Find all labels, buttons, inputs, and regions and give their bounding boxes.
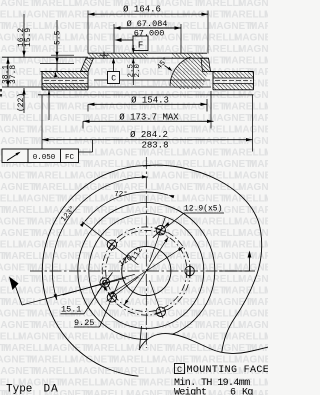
svg-text:Weight: Weight [174,387,206,395]
svg-text:MARELLI: MARELLI [59,10,104,21]
svg-text:MAGNETI: MAGNETI [234,125,268,136]
svg-text:MAGNETI: MAGNETI [182,102,228,113]
svg-text:MARELLI: MARELLI [197,136,242,147]
svg-text:MARELLI: MARELLI [223,194,268,205]
datum C leader with up arrow [113,62,115,72]
svg-text:MARELLI: MARELLI [249,159,268,170]
dimension 67.084 - extension lines [113,24,115,54]
svg-text:MARELLI: MARELLI [197,90,242,101]
svg-text:MARELLI: MARELLI [3,205,48,216]
extra locating hole with cross [100,278,110,288]
svg-text:MARELLI: MARELLI [33,0,78,9]
svg-text:MARELLI: MARELLI [59,378,104,389]
svg-text:MARELLI: MARELLI [193,125,238,136]
front view - hub flange circle [89,214,204,329]
fcf leader to 284.2 dimension [79,151,93,153]
svg-text:MAGNETI: MAGNETI [208,21,254,32]
svg-text:MAGNETI: MAGNETI [152,263,198,274]
svg-text:MAGNETI: MAGNETI [18,286,64,297]
svg-text:MAGNETI: MAGNETI [238,182,268,193]
svg-text:MAGNETI: MAGNETI [70,33,116,44]
svg-text:MOUNTING FACE: MOUNTING FACE [187,365,269,376]
svg-text:MARELLI: MARELLI [223,56,268,67]
svg-text:MAGNETI: MAGNETI [126,205,172,216]
svg-text:Ø 173.7 MAX: Ø 173.7 MAX [119,112,179,122]
section view - mounting face extension line [2,56,88,58]
svg-text:MAGNETI: MAGNETI [44,251,90,262]
bolt hole bottomleft (217.5 deg) [107,293,116,302]
svg-text:2.0: 2.0 [134,63,142,77]
svg-text:Type: Type [6,384,32,395]
svg-text:Ø 164.6: Ø 164.6 [123,5,161,15]
svg-text:MAGNETI: MAGNETI [208,113,254,124]
svg-text:9.25: 9.25 [74,318,94,328]
hat bowl inner edge line 2 (extends left as 38.1 extension) [2,86,211,88]
svg-text:MARELLI: MARELLI [59,286,104,297]
svg-text:MAGNETI: MAGNETI [234,263,268,274]
svg-text:MARELLI: MARELLI [3,343,48,354]
svg-text:MAGNETI: MAGNETI [264,148,268,159]
svg-text:MAGNETI: MAGNETI [152,309,198,320]
svg-text:MARELLI: MARELLI [85,21,130,32]
svg-text:MAGNETI: MAGNETI [44,343,90,354]
svg-text:MAGNETI: MAGNETI [264,286,268,297]
dimension 173.7 MAX - dim line [83,120,214,122]
svg-text:MARELLI: MARELLI [33,136,78,147]
svg-text:MARELLI: MARELLI [115,320,160,331]
rotation arrow tail through locating hole [22,278,126,305]
svg-text:MAGNETI: MAGNETI [182,148,228,159]
cross mark on top surface [103,52,105,60]
hat wall right (hatched) [201,58,211,71]
svg-text:0.050: 0.050 [33,154,56,162]
svg-text:C: C [177,365,182,375]
angle dimension 123 arc [52,177,148,300]
svg-text:MAGNETI: MAGNETI [70,125,116,136]
svg-text:MAGNETI: MAGNETI [238,44,268,55]
svg-text:MAGNETI: MAGNETI [152,171,198,182]
svg-text:6: 6 [230,388,236,395]
svg-text:DA: DA [44,384,59,395]
front view - ring inner circle [78,203,215,340]
datum C box [108,72,120,84]
svg-text:MARELLI: MARELLI [223,148,268,159]
datum F box [133,36,148,51]
svg-text:Kg: Kg [242,388,253,395]
svg-text:MAGNETI: MAGNETI [238,136,268,147]
radial ray 289.5 deg [150,280,163,318]
cross stroke through top-right bolt hole [153,223,169,238]
dimension 284.2/283.8 - dim line [42,139,253,141]
front view - vertical centerline [145,157,147,348]
svg-text:MAGNETI: MAGNETI [74,0,120,9]
svg-text:MAGNETI: MAGNETI [264,194,268,205]
svg-text:MAGNETI: MAGNETI [74,136,120,147]
svg-text:MAGNETI: MAGNETI [238,320,268,331]
svg-text:MAGNETI: MAGNETI [18,332,64,343]
svg-text:MAGNETI: MAGNETI [234,33,268,44]
svg-text:MAGNETI: MAGNETI [18,10,64,21]
svg-text:MAGNETI: MAGNETI [18,194,64,205]
mounting face note [175,364,185,374]
front view - bolt circle dash-dot 112 [106,230,187,311]
svg-text:MARELLI: MARELLI [59,102,104,113]
svg-text:37.8: 37.8 [9,65,18,84]
svg-text:MARELLI: MARELLI [111,309,156,320]
cropped marks at left edge [0,89,2,92]
dimension 154.3 - dim line with hooks [88,103,207,105]
runout feature control frame [2,149,79,163]
svg-text:MAGNETI: MAGNETI [264,102,268,113]
hat-ring corner fillet arc [170,57,191,86]
front view - bolt circle dash-dot 120 [102,227,190,315]
svg-text:Ø 284.2: Ø 284.2 [130,130,168,140]
svg-text:MAGNETI: MAGNETI [74,366,120,377]
svg-text:MARELLI: MARELLI [33,228,78,239]
svg-text:MAGNETI: MAGNETI [264,240,268,251]
svg-text:MARELLI: MARELLI [197,320,242,331]
friction ring right block [209,71,254,73]
radial ray 196 deg [63,274,135,295]
svg-text:MARELLI: MARELLI [85,343,130,354]
svg-text:FC: FC [65,154,75,162]
dimension 5.5 vertical [56,20,58,71]
svg-text:MARELLI: MARELLI [33,366,78,377]
svg-text:MARELLI: MARELLI [29,355,74,366]
section view - short datum line [51,54,74,56]
bolt circle diameter line 120 [109,247,183,295]
svg-text:MAGNETI: MAGNETI [156,320,202,331]
svg-text:MAGNETI: MAGNETI [74,274,120,285]
friction ring left block [41,71,89,73]
svg-text:5.5: 5.5 [54,30,63,45]
bolt hole right (0 deg) [185,266,194,275]
svg-text:MARELLI: MARELLI [167,159,212,170]
svg-text:MARELLI: MARELLI [29,263,74,274]
svg-text:MARELLI: MARELLI [223,286,268,297]
svg-text:MAGNETI: MAGNETI [156,0,202,9]
svg-text:Ø 154.3: Ø 154.3 [131,95,169,105]
svg-text:MAGNETI: MAGNETI [44,21,90,32]
break line wavy [139,334,268,354]
bolt circle diameter line 112 [124,237,168,305]
svg-text:MARELLI: MARELLI [111,217,156,228]
section view - hat inner face short line [40,63,74,65]
bolt hole topright (70.5 deg) [156,226,165,235]
svg-text:MAGNETI: MAGNETI [238,228,268,239]
extension line below left ring [48,90,50,120]
svg-text:MARELLI: MARELLI [141,286,186,297]
svg-text:MARELLI: MARELLI [29,125,74,136]
svg-text:MAGNETI: MAGNETI [234,355,268,366]
radial ray 217.5 deg [107,277,139,301]
section view - flange bottom line [88,57,207,59]
svg-text:MAGNETI: MAGNETI [208,297,254,308]
svg-text:MAGNETI: MAGNETI [238,90,268,101]
svg-text:MAGNETI: MAGNETI [126,159,172,170]
svg-text:MARELLI: MARELLI [193,217,238,228]
svg-text:283.8: 283.8 [141,141,168,151]
svg-text:MARELLI: MARELLI [3,251,48,262]
svg-text:MAGNETI: MAGNETI [264,56,268,67]
svg-text:MAGNETI: MAGNETI [70,355,116,366]
svg-text:MAGNETI: MAGNETI [182,240,228,251]
dimension 16.2/15.9 vertical [23,14,25,57]
svg-text:MAGNETI: MAGNETI [264,10,268,21]
svg-text:MAGNETI: MAGNETI [234,217,268,228]
svg-text:MAGNETI: MAGNETI [208,251,254,262]
svg-text:F: F [138,41,143,51]
svg-text:MARELLI: MARELLI [223,332,268,343]
svg-text:MAGNETI: MAGNETI [156,228,202,239]
svg-text:MAGNETI: MAGNETI [234,171,268,182]
svg-text:MARELLI: MARELLI [249,21,268,32]
svg-text:MAGNETI: MAGNETI [182,10,228,21]
od runout check arrow top right [249,254,251,271]
flange hatch right [172,54,203,58]
runout symbol [7,153,20,161]
svg-text:MARELLI: MARELLI [197,0,242,9]
dimension 284.2 - extension lines [41,95,43,152]
svg-text:MARELLI: MARELLI [193,33,238,44]
dimension 38.1/37.8 vertical [7,57,9,87]
svg-text:MAGNETI: MAGNETI [70,217,116,228]
svg-text:12.9(x5): 12.9(x5) [184,205,222,214]
svg-text:15.9: 15.9 [24,28,33,47]
datum F leader arrow on bore extension [115,38,122,42]
svg-text:MARELLI: MARELLI [223,240,268,251]
svg-text:MARELLI: MARELLI [33,274,78,285]
dimension 164.6 - dim line [88,13,208,15]
svg-text:MARELLI: MARELLI [111,171,156,182]
svg-text:MAGNETI: MAGNETI [100,148,146,159]
break line stub [140,326,142,348]
svg-text:MARELLI: MARELLI [33,182,78,193]
disc bottom line [38,94,254,96]
svg-text:MARELLI: MARELLI [167,251,212,262]
svg-text:MAGNETI: MAGNETI [74,90,120,101]
svg-text:MARELLI: MARELLI [249,297,268,308]
svg-text:MARELLI: MARELLI [29,171,74,182]
svg-text:MARELLI: MARELLI [249,251,268,262]
front view - center bore circle [122,246,171,295]
svg-text:15.1: 15.1 [61,305,81,315]
svg-text:72°: 72° [114,190,128,199]
bolt hole topleft (142.5 deg) [107,240,116,249]
svg-text:MARELLI: MARELLI [193,263,238,274]
hat-ring corner solid (hatched crescent) [170,58,208,90]
svg-text:MAGNETI: MAGNETI [182,194,228,205]
svg-text:MAGNETI: MAGNETI [100,332,146,343]
bolt hole bottom (289.5 deg) [156,307,165,316]
svg-text:MARELLI: MARELLI [33,90,78,101]
svg-text:MARELLI: MARELLI [249,113,268,124]
hat bowl inner edge line 1 [94,79,210,81]
svg-text:MAGNETI: MAGNETI [182,286,228,297]
svg-text:C: C [111,75,116,84]
notch white-out bottom right [138,334,268,395]
svg-text:MARELLI: MARELLI [197,182,242,193]
svg-text:67.000: 67.000 [134,28,165,38]
svg-text:(22): (22) [17,93,26,112]
rotation arrow [9,277,19,291]
svg-text:MAGNETI: MAGNETI [156,274,202,285]
svg-text:MAGNETI: MAGNETI [264,378,268,389]
radial ray 70.5 deg [150,217,166,261]
section view - disc top surface line [88,52,207,54]
front view - horizontal centerline [30,270,255,272]
svg-text:MARELLI: MARELLI [3,113,48,124]
dimension 2.5/2.0 leader arrows [132,45,134,53]
svg-text:MAGNETI: MAGNETI [208,159,254,170]
svg-text:MARELLI: MARELLI [167,21,212,32]
svg-text:MARELLI: MARELLI [3,297,48,308]
dimension (22) vertical [23,88,25,113]
front view - break boundary curve right side [143,165,262,352]
svg-text:MAGNETI: MAGNETI [126,297,172,308]
svg-text:MARELLI: MARELLI [29,33,74,44]
dimension 67.084/67.000 - dim line [114,27,181,29]
svg-text:MARELLI: MARELLI [193,355,238,366]
svg-text:MARELLI: MARELLI [223,10,268,21]
front view - outer circle arc [42,166,150,377]
svg-text:MARELLI: MARELLI [85,389,130,395]
hat wall left (hatched) [81,58,94,71]
svg-text:MAGNETI: MAGNETI [234,309,268,320]
45 degree leader arrow [165,66,171,70]
svg-text:MAGNETI: MAGNETI [264,332,268,343]
angle dimension 72 arc [85,192,168,221]
svg-text:MAGNETI: MAGNETI [238,0,268,9]
radial ray 142.5 deg [82,222,138,265]
svg-text:MARELLI: MARELLI [249,205,268,216]
dimension 164.6 - extension lines [87,11,89,54]
svg-text:MAGNETI: MAGNETI [70,263,116,274]
svg-text:MAGNETI: MAGNETI [156,182,202,193]
svg-text:MAGNETI: MAGNETI [70,171,116,182]
svg-text:MARELLI: MARELLI [223,102,268,113]
flange hatch left [89,54,148,58]
svg-text:MARELLI: MARELLI [111,263,156,274]
